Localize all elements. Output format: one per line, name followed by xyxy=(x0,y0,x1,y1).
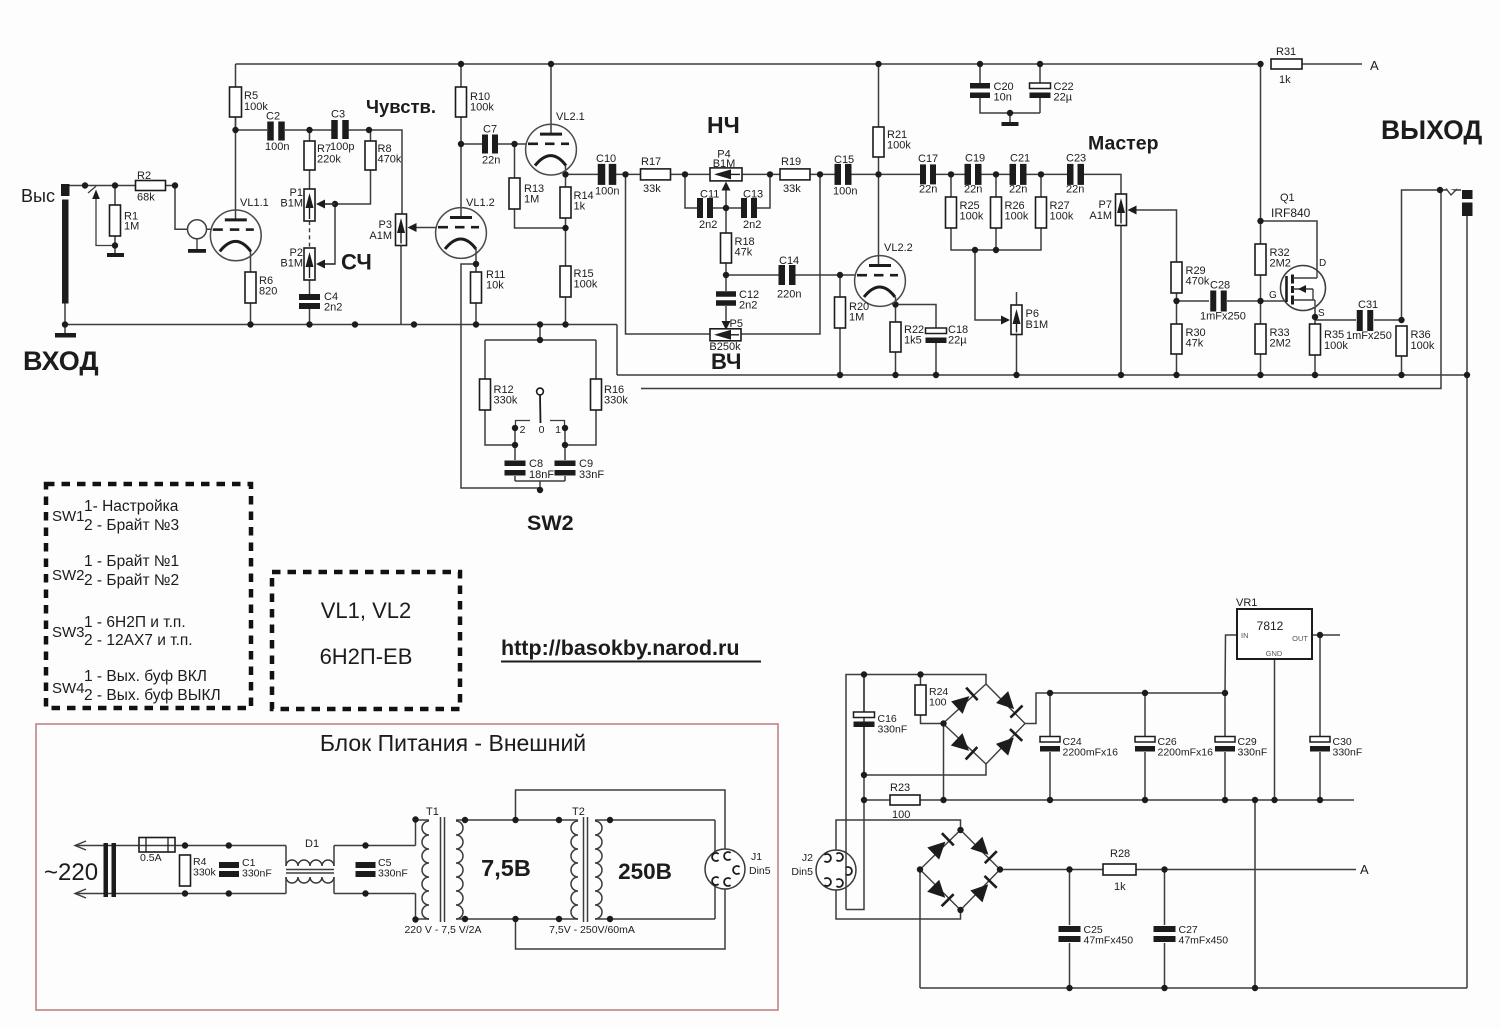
switch SW2 lever xyxy=(537,388,544,395)
wire outer loop top xyxy=(516,790,726,849)
svg-text:C23: C23 xyxy=(1066,153,1086,165)
wire bus to P6 wiper xyxy=(975,250,1001,320)
capacitor C2 xyxy=(267,122,274,141)
resistor R8 xyxy=(365,141,376,170)
capacitor C31 xyxy=(1357,310,1363,331)
svg-text:СЧ: СЧ xyxy=(341,250,372,275)
wire R6 bottom xyxy=(250,303,252,325)
wire R24 bottom to bridge1 left xyxy=(921,715,944,724)
svg-text:33nF: 33nF xyxy=(579,469,604,481)
resistor R17 xyxy=(641,169,671,180)
wire R36 bottom xyxy=(1401,356,1403,375)
svg-text:470k: 470k xyxy=(1186,276,1210,288)
wire gate node to Q1 gate xyxy=(1261,300,1285,302)
capacitor C1 xyxy=(219,862,239,868)
svg-text:2: 2 xyxy=(520,424,526,436)
svg-text:Блок Питания - Внешний: Блок Питания - Внешний xyxy=(320,730,586,756)
capacitor C19 xyxy=(965,164,972,185)
svg-text:C2: C2 xyxy=(266,111,280,123)
wire C26 bottom lead xyxy=(1144,752,1146,800)
wire VR1 GND pin xyxy=(1274,659,1276,800)
svg-text:C10: C10 xyxy=(596,153,616,165)
wire SW2 common from ground rail xyxy=(539,325,541,341)
junction dots signal row xyxy=(622,171,628,177)
svg-text:7,5V - 250V/60mA: 7,5V - 250V/60mA xyxy=(549,924,635,936)
resistor R20 xyxy=(835,297,846,328)
svg-text:330nF: 330nF xyxy=(878,724,908,736)
svg-text:1M: 1M xyxy=(849,312,864,324)
junction dots lower rail xyxy=(837,372,843,378)
svg-text:C14: C14 xyxy=(779,255,799,267)
wire source to C31 xyxy=(1315,319,1356,321)
wire ground rail jog down xyxy=(616,325,618,376)
output jack xyxy=(1447,188,1455,196)
svg-text:100k: 100k xyxy=(1005,211,1029,223)
svg-text:330k: 330k xyxy=(604,395,628,407)
svg-text:B1M: B1M xyxy=(280,198,303,210)
fuse 0.5A xyxy=(139,838,175,853)
svg-text:1M: 1M xyxy=(524,194,539,206)
wire R18 top xyxy=(725,208,727,233)
capacitor C20 xyxy=(970,83,990,89)
svg-text:22n: 22n xyxy=(1066,184,1084,196)
mains plug bars xyxy=(104,843,109,897)
svg-text:IN: IN xyxy=(1241,631,1249,640)
svg-text:100k: 100k xyxy=(470,102,494,114)
wire gate node to C28 xyxy=(1177,300,1210,302)
svg-text:C21: C21 xyxy=(1010,153,1030,165)
wire mains top xyxy=(75,845,286,847)
svg-text:Q1: Q1 xyxy=(1280,192,1295,204)
svg-text:C7: C7 xyxy=(483,124,497,136)
wire C12 to P5 wiper xyxy=(725,306,727,321)
potentiometer P7 xyxy=(1116,194,1127,226)
wire bridge2 right to R28 xyxy=(1000,869,1103,871)
wire cathode node to C18 xyxy=(896,305,937,329)
svg-text:http://basokby.narod.ru: http://basokby.narod.ru xyxy=(501,636,740,660)
capacitor C29 electrolytic xyxy=(1215,737,1235,743)
svg-text:10k: 10k xyxy=(486,280,504,292)
resistor R15 xyxy=(560,266,571,297)
resistor R14 xyxy=(560,187,571,218)
junction dots PSU lower xyxy=(1066,866,1072,872)
wire VL1.2 cathode to SW2 network xyxy=(461,264,540,488)
svg-text:33k: 33k xyxy=(783,183,801,195)
wire R15 bottom xyxy=(565,297,567,325)
svg-text:VL2.2: VL2.2 xyxy=(884,242,913,254)
svg-text:A: A xyxy=(1360,862,1369,877)
wire contact 2 drop xyxy=(514,428,516,460)
svg-text:22µ: 22µ xyxy=(948,335,967,347)
wire R21 bottom to anode VL2.2 xyxy=(878,157,880,265)
resistor R12 xyxy=(480,379,491,410)
svg-text:22n: 22n xyxy=(964,184,982,196)
legend box VL1 VL2 xyxy=(272,572,460,709)
voltage regulator VR1 7812 xyxy=(1237,609,1312,659)
svg-text:18nF: 18nF xyxy=(529,469,554,481)
wire C22 top lead xyxy=(1039,64,1041,83)
svg-text:НЧ: НЧ xyxy=(707,112,740,138)
wire B+ to R31 junction down to drain xyxy=(1260,64,1262,244)
wire R12 bottom to contact 2 xyxy=(485,410,515,445)
wire C9 bottom xyxy=(564,476,566,481)
svg-text:22µ: 22µ xyxy=(1054,92,1073,104)
svg-text:R17: R17 xyxy=(641,156,661,168)
svg-text:SW1: SW1 xyxy=(52,508,85,525)
resistor R36 xyxy=(1396,326,1407,356)
svg-text:220n: 220n xyxy=(777,289,801,301)
wire C11 to node xyxy=(713,207,726,209)
ground grid circle xyxy=(188,249,206,253)
wire R8 top xyxy=(370,130,372,141)
svg-text:B1M: B1M xyxy=(280,258,303,270)
connector J1 Din5 xyxy=(705,849,745,889)
svg-text:100n: 100n xyxy=(833,186,857,198)
wire R16 bottom to contact 1 xyxy=(565,410,596,445)
junction dots SW2 xyxy=(537,337,543,343)
svg-text:J1: J1 xyxy=(751,851,762,863)
svg-text:1mFx250: 1mFx250 xyxy=(1346,330,1392,342)
wire R8 bottom to wiper node xyxy=(325,170,371,204)
wire R31 right to A xyxy=(1302,63,1362,65)
wire R35 bottom xyxy=(1314,355,1316,375)
svg-text:100k: 100k xyxy=(244,101,268,113)
wire ground rail left xyxy=(65,324,617,326)
resistor R22 xyxy=(890,322,901,352)
svg-text:68k: 68k xyxy=(137,192,155,204)
wire jack tip lead xyxy=(1440,189,1461,191)
wire node to C12 xyxy=(725,275,727,291)
wire bridge1 bottom to C16 xyxy=(864,764,986,775)
svg-text:330nF: 330nF xyxy=(1238,747,1268,759)
capacitor C12 xyxy=(716,291,736,297)
svg-text:2 - Вых. буф ВЫКЛ: 2 - Вых. буф ВЫКЛ xyxy=(84,687,221,704)
capacitor C27 xyxy=(1154,926,1176,932)
wire C21 to C23 node xyxy=(1026,173,1069,175)
wire input jack switch to R1 ground node xyxy=(88,186,96,193)
wire R7 top xyxy=(309,130,311,141)
capacitor C17 xyxy=(920,164,926,184)
mosfet Q1 IRF840 xyxy=(1281,266,1326,311)
wire T1 secondary to T2 primary bottom xyxy=(456,918,578,920)
capacitor C25 xyxy=(1059,926,1081,932)
svg-text:1: 1 xyxy=(555,424,561,436)
wire J2 bottom pin to bridge2 xyxy=(836,890,961,919)
resistor R26 xyxy=(991,197,1002,228)
svg-text:Чувств.: Чувств. xyxy=(366,96,436,117)
svg-text:1k: 1k xyxy=(1279,74,1291,86)
svg-text:100k: 100k xyxy=(887,140,911,152)
capacitor C23 xyxy=(1067,164,1074,185)
svg-text:GND: GND xyxy=(1266,649,1283,658)
wire R20 bottom xyxy=(839,328,841,375)
svg-text:VL1, VL2: VL1, VL2 xyxy=(321,598,412,623)
wiper P4 xyxy=(722,182,731,191)
wire R22 bottom xyxy=(895,352,897,375)
svg-text:C3: C3 xyxy=(331,109,345,121)
svg-text:7812: 7812 xyxy=(1257,619,1284,633)
resistor R21 xyxy=(873,127,884,157)
resistor R35 xyxy=(1310,324,1321,355)
resistor R23 xyxy=(890,795,920,805)
resistor R1 xyxy=(110,205,121,236)
wire C28 to gate node 2 xyxy=(1227,300,1261,302)
resistor R28 xyxy=(1103,864,1136,875)
junction dots output stage xyxy=(1173,298,1179,304)
wire C29 bottom lead xyxy=(1224,752,1226,800)
svg-text:100k: 100k xyxy=(1050,211,1074,223)
legend box SW1-SW4 xyxy=(46,484,251,708)
wire T1 primary leads xyxy=(415,820,417,846)
wire C20 bottom to ground xyxy=(980,98,1040,113)
wire VL1.2 cathode to R11 xyxy=(475,249,477,272)
wire C24 top lead xyxy=(1049,693,1051,736)
svg-text:330k: 330k xyxy=(494,395,518,407)
capacitor C26 electrolytic xyxy=(1135,737,1155,743)
wire Q1 source down xyxy=(1314,306,1316,324)
svg-text:2 - Брайт №3: 2 - Брайт №3 xyxy=(84,517,179,534)
junction dots PSU input xyxy=(182,842,188,848)
wire R7 to P1 xyxy=(309,170,311,189)
svg-text:ВЫХОД: ВЫХОД xyxy=(1381,115,1482,145)
triode VL1.1 xyxy=(210,210,261,261)
svg-text:22n: 22n xyxy=(1009,184,1027,196)
wire anode VL1.1 riser xyxy=(235,64,237,219)
wire mains bottom xyxy=(75,893,286,895)
wire contact bracket right xyxy=(550,421,565,429)
svg-text:B1M: B1M xyxy=(1026,319,1049,331)
svg-text:2200mFx16: 2200mFx16 xyxy=(1063,747,1119,759)
resistor R19 xyxy=(780,169,810,180)
wire R21 top xyxy=(878,64,880,127)
junction dots C2 C3 row xyxy=(232,127,238,133)
wire bridge2 left to bottom rail xyxy=(919,870,921,989)
wire C17 right to C19 node xyxy=(935,173,966,175)
capacitor C7 xyxy=(482,135,488,154)
svg-text:820: 820 xyxy=(259,286,277,298)
wire C30 bottom lead xyxy=(1319,752,1321,800)
wire anode VL2.1 riser xyxy=(550,64,552,134)
junction dots VL1.2 area xyxy=(458,141,464,147)
wiper P5 arrow down xyxy=(722,321,731,330)
svg-text:330k: 330k xyxy=(193,867,217,879)
wire R1 top xyxy=(114,186,116,206)
svg-text:R2: R2 xyxy=(137,170,151,182)
svg-text:IRF840: IRF840 xyxy=(1271,206,1311,220)
resistor R16 xyxy=(591,379,602,410)
capacitor C4 xyxy=(299,294,320,300)
svg-text:R28: R28 xyxy=(1110,848,1130,860)
wire R17 to P4 xyxy=(671,173,711,175)
svg-text:2M2: 2M2 xyxy=(1270,338,1291,350)
wire anode VL1.2 riser xyxy=(460,144,462,217)
grid stopper circle VL1.1 xyxy=(188,220,207,239)
wire input signal xyxy=(69,185,136,187)
triode VL2.1 xyxy=(526,124,577,175)
wire output jack sleeve down xyxy=(1466,216,1468,375)
resistor R4 xyxy=(180,855,191,886)
wire P6 bottom xyxy=(1016,334,1018,375)
resistor R32 xyxy=(1255,244,1266,275)
wire R12 top xyxy=(484,340,486,379)
svg-text:100: 100 xyxy=(929,697,947,709)
resistor R2 xyxy=(136,181,166,191)
wire R26 top xyxy=(995,174,997,197)
wire C4 to ground rail xyxy=(309,309,311,325)
junction dots input area xyxy=(82,182,88,188)
wire R24 top lead xyxy=(920,675,922,686)
svg-text:47k: 47k xyxy=(1186,338,1204,350)
svg-text:100k: 100k xyxy=(1324,340,1348,352)
resistor R13 xyxy=(509,178,520,209)
svg-text:C31: C31 xyxy=(1358,299,1378,311)
wire bridge1 left corner to ground rail xyxy=(943,724,945,801)
wire R26 bottom xyxy=(995,228,997,250)
svg-text:A1M: A1M xyxy=(369,230,392,242)
svg-text:VL2.1: VL2.1 xyxy=(556,111,585,123)
junction dots transformers xyxy=(412,816,418,822)
wire P7 bottom xyxy=(1120,225,1122,375)
wire R27 top xyxy=(1040,174,1042,197)
svg-text:G: G xyxy=(1269,290,1277,301)
wire PSU ground to bottom rail xyxy=(1254,800,1256,988)
wire R16 top xyxy=(595,340,597,379)
wire C23 right to P7 xyxy=(1082,174,1121,194)
wire R5 bottom node to C2 xyxy=(235,117,237,130)
wire C14 left xyxy=(726,274,779,276)
resistor R27 xyxy=(1036,197,1047,228)
wire T2 secondary to J1 top xyxy=(595,819,715,821)
wire R29 bottom to gate node xyxy=(1176,293,1178,301)
diode bridge 1 xyxy=(943,684,1025,764)
wire P4 to R19 node xyxy=(742,173,780,175)
junction dots tone network xyxy=(723,205,729,211)
capacitor C9 xyxy=(555,461,576,467)
svg-text:220k: 220k xyxy=(317,154,341,166)
svg-text:VR1: VR1 xyxy=(1236,597,1257,609)
svg-text:T2: T2 xyxy=(572,806,585,818)
svg-text:2n2: 2n2 xyxy=(739,300,757,312)
svg-text:D: D xyxy=(1319,258,1326,269)
wire R18 bottom to C14 node xyxy=(725,263,727,275)
wire VR1 OUT xyxy=(1312,634,1340,636)
resistor R33 xyxy=(1255,324,1266,354)
wire C5 to T1 xyxy=(334,845,416,847)
svg-text:1M: 1M xyxy=(124,221,139,233)
wire node to R15 xyxy=(565,228,567,266)
wire C13 up to node xyxy=(757,174,770,208)
svg-text:SW2: SW2 xyxy=(527,511,574,535)
svg-text:1mFx250: 1mFx250 xyxy=(1200,311,1246,323)
svg-text:SW4: SW4 xyxy=(52,680,85,697)
svg-text:R19: R19 xyxy=(781,156,801,168)
svg-text:2n2: 2n2 xyxy=(743,219,761,231)
svg-text:10n: 10n xyxy=(994,92,1012,104)
wire wiper node to P2 wiper xyxy=(325,204,335,264)
svg-text:J2: J2 xyxy=(802,852,813,864)
wire C14 right to VL2.2 grid xyxy=(795,274,855,276)
resistor R18 xyxy=(721,233,732,263)
svg-text:~220: ~220 xyxy=(44,859,98,886)
ground input xyxy=(55,333,76,338)
diode bridge 2 xyxy=(920,830,1000,910)
svg-text:Мастер: Мастер xyxy=(1088,133,1159,155)
mechanical link P1-P2 dashed xyxy=(309,221,311,248)
capacitor C24 electrolytic xyxy=(1040,737,1060,743)
wire C8-C9 bottom bus xyxy=(515,480,565,482)
svg-text:2n2: 2n2 xyxy=(699,219,717,231)
wire VL2.1 cathode to C10 xyxy=(566,173,599,175)
svg-text:47mFx450: 47mFx450 xyxy=(1084,935,1134,947)
svg-text:2n2: 2n2 xyxy=(324,302,342,314)
wire P7 wiper to R29 xyxy=(1136,210,1177,262)
capacitor C21 xyxy=(1010,164,1017,185)
wire R10 top xyxy=(460,64,462,87)
wire C29 top lead xyxy=(1224,693,1226,736)
wire SW2 top bus xyxy=(485,339,596,341)
wire C3 right to P3 drop xyxy=(347,130,402,214)
potentiometer P6 xyxy=(1011,305,1022,335)
svg-text:C15: C15 xyxy=(834,154,854,166)
wire C27 leads xyxy=(1164,870,1166,926)
wire C7 left xyxy=(461,143,483,145)
wire C7 right to VL2.1 grid xyxy=(497,143,526,145)
svg-text:2200mFx16: 2200mFx16 xyxy=(1158,747,1214,759)
arrow mains top xyxy=(75,841,86,850)
triode VL2.2 xyxy=(855,256,906,307)
wire feedback line lower xyxy=(641,190,1441,389)
wire node to C13 xyxy=(726,207,741,209)
wire R28 to A xyxy=(1136,869,1356,871)
svg-text:22n: 22n xyxy=(919,184,937,196)
svg-text:100k: 100k xyxy=(574,279,598,291)
wire R19 to C15 node xyxy=(810,173,835,175)
svg-text:1- Настройка: 1- Настройка xyxy=(84,498,179,515)
svg-text:2M2: 2M2 xyxy=(1270,258,1291,270)
svg-text:Выс: Выс xyxy=(21,186,55,206)
input jack switch arrow xyxy=(92,190,100,200)
wire B+ top rail xyxy=(236,63,1261,65)
wire VR1 OUT to C30 xyxy=(1319,635,1321,736)
wire PSU ground rail xyxy=(864,799,1354,801)
svg-text:1 - Вых. буф ВКЛ: 1 - Вых. буф ВКЛ xyxy=(84,668,207,685)
resistor R5 xyxy=(230,87,242,117)
svg-text:ВХОД: ВХОД xyxy=(23,346,99,376)
svg-text:7,5В: 7,5В xyxy=(481,855,531,881)
capacitor C5 xyxy=(356,862,376,868)
wire C10 to R17 node xyxy=(616,173,641,175)
wire R10 bottom to C7 node xyxy=(460,117,462,144)
svg-text:470k: 470k xyxy=(378,154,402,166)
wire P2 to C4 xyxy=(309,280,311,294)
svg-text:C17: C17 xyxy=(918,153,938,165)
potentiometer P1 xyxy=(304,189,315,221)
wire R20 top xyxy=(839,275,841,297)
svg-text:T1: T1 xyxy=(426,806,439,818)
resistor R30 xyxy=(1171,324,1182,354)
wire C2 to C3 node xyxy=(285,129,333,131)
svg-text:2 - Брайт №2: 2 - Брайт №2 xyxy=(84,572,179,589)
svg-text:100n: 100n xyxy=(265,141,289,153)
wire ground rail right section xyxy=(617,374,1467,376)
ground C20 C22 xyxy=(1002,122,1019,126)
svg-text:0: 0 xyxy=(539,424,545,436)
svg-text:330nF: 330nF xyxy=(378,868,408,880)
svg-text:100n: 100n xyxy=(595,186,619,198)
wire R2 to grid of VL1.1 xyxy=(175,186,212,230)
wire R30 bottom xyxy=(1176,354,1178,375)
wire VL1.1 cathode to R6 xyxy=(250,251,252,272)
